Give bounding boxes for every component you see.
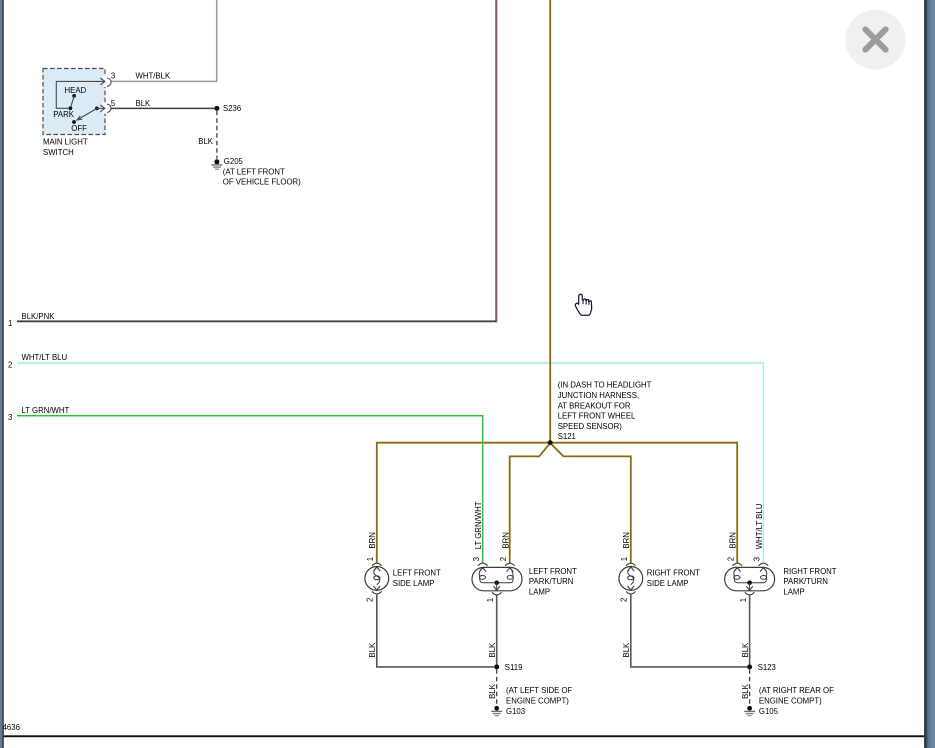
svg-text:1: 1 [486, 598, 495, 602]
svg-text:SWITCH: SWITCH [43, 148, 74, 157]
node 2 WHT/LT BLU label [8, 353, 68, 369]
svg-text:LAMP: LAMP [783, 587, 804, 596]
svg-text:2: 2 [8, 360, 12, 369]
svg-text:PARK/TURN: PARK/TURN [783, 577, 827, 586]
svg-text:S121: S121 [558, 432, 576, 441]
node S121 [548, 440, 553, 445]
svg-text:S119: S119 [505, 663, 523, 672]
svg-text:G105: G105 [759, 707, 779, 716]
svg-text:WHT/BLK: WHT/BLK [136, 72, 171, 81]
svg-text:SPEED SENSOR): SPEED SENSOR) [558, 422, 623, 431]
svg-text:G205: G205 [224, 157, 244, 166]
lamp E1 LEFT FRONT SIDE LAMP [365, 532, 441, 602]
wire BLK dashed to G205 [216, 111, 218, 159]
wire BLK dashed to G105 [749, 669, 751, 706]
svg-text:PARK: PARK [53, 110, 74, 119]
svg-text:SIDE LAMP: SIDE LAMP [647, 579, 689, 588]
splice S121 note [558, 381, 652, 442]
svg-text:2: 2 [727, 557, 736, 561]
node S236 [214, 106, 219, 111]
svg-text:BLK: BLK [741, 642, 750, 658]
ground G105 [744, 706, 755, 716]
svg-text:(AT LEFT FRONT: (AT LEFT FRONT [223, 167, 285, 176]
svg-text:WHT/LT BLU: WHT/LT BLU [22, 353, 68, 362]
svg-text:LAMP: LAMP [529, 587, 550, 596]
svg-text:RIGHT FRONT: RIGHT FRONT [647, 569, 700, 578]
svg-text:PARK/TURN: PARK/TURN [529, 577, 573, 586]
svg-text:(AT LEFT SIDE OF: (AT LEFT SIDE OF [506, 686, 573, 695]
svg-text:ENGINE COMPT): ENGINE COMPT) [759, 696, 822, 705]
ground G205 [211, 157, 301, 187]
svg-text:1: 1 [620, 557, 629, 561]
wire BRN riser [549, 0, 551, 443]
svg-text:JUNCTION HARNESS,: JUNCTION HARNESS, [558, 391, 639, 400]
node 1 BLK/PNK label [8, 312, 55, 328]
wire BLK lamp1 to S119 [376, 666, 494, 668]
svg-text:LEFT FRONT: LEFT FRONT [393, 569, 441, 578]
ground G103 [491, 706, 502, 716]
wire BLK lamp3 down [630, 594, 632, 667]
svg-text:3: 3 [753, 557, 762, 561]
main light switch S1 [43, 69, 111, 158]
wire BLK/PNK [17, 0, 496, 321]
svg-text:(IN DASH TO HEADLIGHT: (IN DASH TO HEADLIGHT [558, 381, 652, 390]
svg-text:ENGINE COMPT): ENGINE COMPT) [506, 696, 569, 705]
svg-text:BLK: BLK [198, 137, 214, 146]
svg-text:OFF: OFF [71, 124, 87, 133]
svg-text:S123: S123 [758, 663, 776, 672]
svg-text:BRN: BRN [501, 532, 510, 548]
svg-text:2: 2 [499, 557, 508, 561]
svg-text:4636: 4636 [3, 723, 20, 732]
svg-text:LT GRN/WHT: LT GRN/WHT [22, 406, 70, 415]
lamp E3 RIGHT FRONT SIDE LAMP [619, 532, 700, 602]
svg-text:LEFT FRONT WHEEL: LEFT FRONT WHEEL [558, 412, 636, 421]
G103 note [506, 686, 573, 716]
lamp E2 LEFT FRONT PARK/TURN LAMP [472, 501, 577, 602]
svg-text:WHT/LT BLU: WHT/LT BLU [755, 503, 764, 549]
wire BLK lamp4 down [749, 595, 751, 667]
node 3 LT GRN/WHT label [8, 406, 70, 422]
G105 note [759, 686, 834, 716]
wire BRN sub-bus right [551, 444, 630, 563]
svg-text:BLK: BLK [741, 683, 750, 699]
svg-text:BLK/PNK: BLK/PNK [22, 312, 56, 321]
svg-text:BRN: BRN [368, 532, 377, 548]
wire BLK dashed to G103 [496, 669, 498, 706]
wire BLK lamp1 down [376, 594, 378, 667]
svg-text:1: 1 [739, 598, 748, 602]
svg-text:SIDE LAMP: SIDE LAMP [393, 579, 435, 588]
close button [845, 10, 905, 70]
cursor hand [575, 294, 591, 315]
wire BRN sub-bus left [510, 444, 550, 563]
svg-text:BLK: BLK [136, 99, 152, 108]
svg-text:RIGHT FRONT: RIGHT FRONT [783, 567, 836, 576]
node S123 [747, 664, 752, 669]
svg-text:3: 3 [111, 72, 115, 81]
svg-text:S236: S236 [223, 104, 241, 113]
svg-text:AT BREAKOUT FOR: AT BREAKOUT FOR [558, 401, 631, 410]
svg-text:BRN: BRN [622, 532, 631, 548]
wire BLK lamp3 to S123 [630, 666, 747, 668]
svg-text:G103: G103 [506, 707, 525, 716]
wire BRN bus [377, 443, 737, 563]
node S119 [494, 664, 499, 669]
svg-text:BLK: BLK [488, 683, 497, 699]
svg-text:3: 3 [8, 413, 12, 422]
lamp E4 RIGHT FRONT PARK/TURN LAMP [725, 503, 837, 602]
wire LT GRN/WHT [17, 416, 483, 563]
wire WHT/BLK [111, 0, 217, 81]
svg-text:2: 2 [365, 598, 374, 602]
svg-text:2: 2 [619, 598, 628, 602]
wire BLK pin5 to S236 [111, 107, 217, 109]
svg-text:LEFT FRONT: LEFT FRONT [529, 567, 577, 576]
svg-text:5: 5 [111, 99, 116, 108]
wire BLK lamp2 down [496, 595, 498, 667]
svg-text:MAIN LIGHT: MAIN LIGHT [43, 137, 88, 146]
svg-text:BLK: BLK [488, 642, 497, 658]
svg-text:BLK: BLK [622, 642, 631, 658]
svg-text:HEAD: HEAD [65, 86, 87, 95]
svg-text:(AT RIGHT REAR OF: (AT RIGHT REAR OF [759, 686, 834, 695]
svg-text:LT GRN/WHT: LT GRN/WHT [474, 501, 483, 549]
svg-text:1: 1 [366, 557, 375, 561]
svg-text:3: 3 [472, 557, 481, 561]
svg-text:OF VEHICLE FLOOR): OF VEHICLE FLOOR) [223, 178, 301, 187]
svg-text:BLK: BLK [368, 642, 377, 658]
svg-text:1: 1 [8, 319, 12, 328]
svg-text:BRN: BRN [729, 532, 738, 548]
wire WHT/LT BLU [17, 361, 764, 363]
